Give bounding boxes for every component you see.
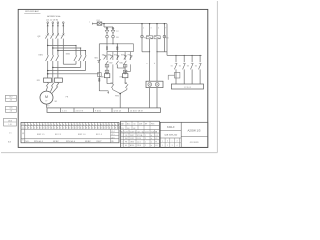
svg-text:3P 10A: 3P 10A: [137, 134, 143, 137]
svg-text:PEN: PEN: [115, 96, 120, 98]
wiring table right sub-grid: [111, 129, 120, 143]
svg-text:mark XB: mark XB: [151, 130, 158, 133]
paper right/bottom edge shading: [1, 1, 217, 153]
svg-text:A2GW 1/3: A2GW 1/3: [188, 129, 201, 133]
wire: ladder verticals mid: [107, 64, 130, 83]
svg-text:KM1: KM1: [100, 76, 104, 78]
supply terminals L1 L2 L3 N: [47, 22, 64, 24]
test box on left rail: [98, 73, 102, 77]
svg-text:4: 4: [51, 128, 52, 130]
svg-text:5: 5: [40, 124, 41, 126]
svg-text:3: 3: [57, 124, 58, 126]
svg-text:12 13 14: 12 13 14: [114, 110, 121, 112]
svg-text:6: 6: [60, 124, 61, 126]
svg-text:JR36: JR36: [130, 142, 134, 144]
svg-text:1: 1: [112, 128, 113, 130]
svg-text:2: 2: [37, 124, 38, 126]
svg-text:0: 0: [83, 124, 84, 126]
svg-text:1: 1: [74, 124, 75, 126]
svg-text:a: a: [162, 141, 163, 143]
svg-text:BVR 1.0: BVR 1.0: [78, 134, 86, 136]
svg-text:XJ21-F: XJ21-F: [167, 126, 175, 129]
wire: leads into motor: [46, 86, 58, 93]
svg-text:3: 3: [72, 128, 73, 130]
contactor coil KM2: [120, 74, 128, 79]
svg-text:2: 2: [34, 128, 35, 130]
title block: [160, 122, 208, 147]
svg-text:6: 6: [31, 124, 32, 126]
wiring table bottom row labels: [26, 141, 115, 143]
svg-text:2: 2: [63, 128, 64, 130]
title block small cells text: [162, 141, 177, 148]
circuit breaker QF: [37, 33, 65, 39]
svg-text:7: 7: [48, 128, 49, 130]
svg-text:0: 0: [25, 124, 26, 126]
svg-text:3: 3: [28, 124, 29, 126]
svg-text:1: 1: [25, 128, 26, 130]
svg-text:L1 4: L1 4: [111, 131, 114, 133]
title block date cell: [190, 142, 199, 144]
svg-text:1 2 3: 1 2 3: [62, 110, 66, 112]
svg-text:CJX2: CJX2: [130, 138, 134, 140]
limit switch branch SQ1: [171, 55, 178, 84]
wire: ladder verticals upper: [107, 44, 134, 60]
svg-text:D318: D318: [8, 120, 12, 122]
contactor KM1 main contacts: [39, 55, 59, 61]
svg-text:1: 1: [122, 135, 123, 137]
connector plugs X1: [106, 44, 118, 52]
svg-text:2: 2: [66, 124, 67, 126]
interlock boxes above coils: [105, 65, 127, 73]
svg-text:4: 4: [80, 128, 81, 130]
right terminal box: [171, 84, 203, 89]
svg-text:3: 3: [172, 145, 173, 147]
connector on left rail: [99, 78, 100, 81]
wiring table dense columns: [28, 122, 121, 129]
left margin zone box 1: [5, 95, 16, 101]
svg-text:7: 7: [51, 124, 52, 126]
svg-text:3: 3: [43, 128, 44, 130]
svg-text:0: 0: [103, 128, 104, 130]
svg-text:3: 3: [122, 142, 123, 144]
ladder row1 contacts: [102, 54, 133, 59]
svg-text:1: 1: [143, 28, 144, 30]
svg-text:2: 2: [95, 124, 96, 126]
svg-text:7: 7: [106, 128, 107, 130]
svg-text:BV 2.5: BV 2.5: [55, 134, 62, 136]
svg-text:5: 5: [98, 124, 99, 126]
svg-text:JBT-2019 A02: JBT-2019 A02: [25, 10, 40, 13]
svg-text:6: 6: [98, 128, 99, 130]
svg-text:4 5 6 7 8: 4 5 6 7 8: [76, 110, 83, 112]
svg-text:6: 6: [89, 124, 90, 126]
svg-text:2: 2: [122, 138, 123, 140]
voltage transformer TV symbols: [105, 28, 119, 34]
auxiliary contacts below coils: [107, 82, 128, 87]
svg-text:4: 4: [109, 128, 110, 130]
wire: PE tap from motor lead: [47, 73, 99, 75]
svg-text:spec. qty: spec. qty: [137, 130, 144, 133]
svg-text:FR: FR: [37, 80, 40, 82]
svg-text:RVV 3x1.0: RVV 3x1.0: [66, 141, 75, 143]
drawing number text top-left: [24, 10, 40, 14]
svg-text:7: 7: [165, 28, 166, 30]
heater connection box: [168, 72, 180, 79]
wire: KM2 crossover to motor leads: [47, 61, 85, 71]
svg-text:S2: S2: [179, 65, 181, 67]
wire: left control rail: [99, 44, 107, 91]
svg-text:5: 5: [69, 124, 70, 126]
overload heater strokes: [46, 82, 59, 86]
wire: drops below fuses: [142, 38, 164, 52]
svg-text:S4: S4: [195, 65, 197, 67]
svg-text:2: 2: [167, 145, 168, 147]
limit switch branch SQ2: [179, 55, 186, 84]
parts list table: [121, 121, 160, 147]
svg-text:L2 5: L2 5: [111, 134, 114, 136]
svg-text:DZ47: DZ47: [130, 135, 134, 137]
terminal strip XT: [47, 106, 161, 113]
svg-text:K1: K1: [155, 138, 157, 140]
svg-text:5: 5: [60, 128, 61, 130]
limit switch branch SQ3: [187, 55, 194, 84]
svg-text:9: 9: [34, 124, 35, 126]
svg-text:8: 8: [86, 128, 87, 130]
svg-text:1: 1: [54, 128, 55, 130]
svg-text:6: 6: [69, 128, 70, 130]
wire: KM1 poles down: [48, 61, 58, 78]
svg-text:1: 1: [45, 124, 46, 126]
wiring table grid: [21, 122, 119, 142]
svg-text:8: 8: [28, 128, 29, 130]
ladder row2 interlock contacts: [106, 61, 127, 65]
stop button SB1 on left rail: [94, 58, 100, 63]
supply label text: [46, 15, 60, 21]
title block project name: [167, 126, 175, 129]
svg-text:4: 4: [106, 124, 107, 126]
svg-text:S3: S3: [187, 65, 189, 67]
wiring table tiny cell digits: [25, 124, 119, 129]
svg-text:1: 1: [103, 124, 104, 126]
svg-text:QJB 3kW-400: QJB 3kW-400: [164, 135, 178, 137]
svg-text:M: M: [45, 95, 48, 99]
svg-text:4: 4: [48, 124, 49, 126]
svg-text:HL: HL: [125, 145, 127, 147]
indicator lamp panel box: [146, 81, 163, 87]
wire: lamp feeders: [146, 52, 157, 81]
svg-text:HJ: HJ: [133, 128, 135, 130]
wire: feed to right group: [167, 24, 174, 56]
wire: neutral line down: [62, 39, 64, 65]
svg-text:N2 BV: N2 BV: [53, 141, 59, 143]
thermal overload relay FR: [37, 78, 63, 82]
svg-text:1:1: 1:1: [9, 133, 12, 135]
svg-text:9: 9: [63, 124, 64, 126]
node label PEN: [115, 96, 120, 98]
svg-text:4 6: 4 6: [10, 100, 12, 102]
svg-text:0: 0: [45, 128, 46, 130]
svg-text:KM1: KM1: [119, 63, 123, 65]
contactor coil KM1: [100, 74, 109, 79]
fuse FU3 on outer drops: [141, 35, 170, 39]
svg-text:a: a: [146, 63, 147, 65]
svg-text:KM2: KM2: [109, 63, 113, 65]
svg-text:6: 6: [118, 124, 119, 126]
svg-text:L: L: [89, 22, 90, 24]
limit switch branch SQ4: [195, 55, 202, 84]
svg-text:8: 8: [72, 124, 73, 126]
svg-text:8: 8: [43, 124, 44, 126]
svg-text:H1: H1: [155, 145, 157, 147]
svg-text:BV 1.5: BV 1.5: [96, 134, 103, 136]
svg-text:SB1: SB1: [94, 58, 98, 60]
svg-text:b: b: [154, 63, 155, 65]
svg-text:S1: S1: [171, 65, 173, 67]
wiring table left header vertical text: [22, 123, 24, 141]
svg-text:BVR 1.5: BVR 1.5: [37, 134, 45, 136]
wire: control feed drops: [104, 24, 113, 30]
fuse FU1 (box with X): [97, 20, 102, 25]
svg-text:4: 4: [122, 145, 123, 147]
svg-text:(L1 L2 L3 N): (L1 L2 L3 N): [46, 19, 58, 21]
svg-text:GY 2019: GY 2019: [190, 142, 199, 144]
wiring table middle row labels: [37, 134, 103, 136]
wire: below coils: [107, 78, 125, 84]
svg-text:6: 6: [40, 128, 41, 130]
svg-text:5: 5: [89, 128, 90, 130]
svg-text:b: b: [167, 141, 168, 143]
svg-text:2 8: 2 8: [10, 111, 12, 113]
lamp HL1: [148, 83, 152, 87]
wire: pair merge links: [142, 51, 167, 52]
wire: converge to node: [113, 88, 127, 95]
svg-text:3: 3: [151, 28, 152, 30]
left margin bottom text: [8, 141, 12, 144]
svg-text:1-1.6: 1-1.6: [137, 142, 141, 144]
svg-text:3: 3: [115, 124, 116, 126]
svg-text:9: 9: [37, 128, 38, 130]
fuse FU2 pair: [106, 34, 120, 40]
svg-text:RVV 4x1.5: RVV 4x1.5: [34, 141, 43, 143]
wire: control bus stub: [89, 22, 97, 25]
contactor KM2 main contacts: [66, 54, 86, 61]
left margin scale text: [9, 133, 12, 135]
svg-text:2: 2: [145, 138, 146, 140]
wire: motor to terminal strip: [46, 104, 48, 108]
motor M1: [40, 91, 57, 104]
svg-text:EF: EF: [145, 124, 147, 126]
wire: left rail bottom link to sheet ref: [99, 91, 109, 94]
svg-text:1: 1: [145, 142, 146, 144]
label PE near motor: [66, 96, 69, 98]
svg-text:1:10: 1:10: [8, 124, 11, 126]
svg-text:M1: M1: [55, 101, 58, 103]
svg-text:8: 8: [57, 128, 58, 130]
svg-text:1: 1: [145, 135, 146, 137]
svg-text:0: 0: [74, 128, 75, 130]
wire: to ladder top: [107, 38, 134, 52]
svg-text:1 2 3 4 5: 1 2 3 4 5: [184, 87, 191, 89]
title block sheet number: [188, 129, 201, 133]
wire: right group top bus: [174, 55, 201, 56]
svg-text:0: 0: [54, 124, 55, 126]
svg-text:RVV7: RVV7: [97, 141, 102, 143]
wire: phase drops from terminals: [47, 23, 64, 33]
svg-text:B12: B12: [9, 97, 12, 99]
svg-text:9 10 11: 9 10 11: [95, 110, 101, 112]
fuse FU4 boxes on middle drops: [146, 36, 160, 39]
parts list rows text: [121, 123, 157, 147]
svg-text:d: d: [176, 141, 177, 143]
svg-text:N3 BV: N3 BV: [85, 141, 91, 143]
svg-text:3: 3: [86, 124, 87, 126]
wire: node to terminal strip: [119, 94, 121, 108]
left margin revision box: [4, 118, 17, 126]
svg-text:unit re: unit re: [145, 130, 150, 133]
svg-text:AC380V 50Hz: AC380V 50Hz: [47, 15, 60, 18]
svg-text:9: 9: [92, 124, 93, 126]
wire: phases below breaker: [48, 39, 58, 56]
svg-text:8: 8: [115, 128, 116, 130]
svg-text:5: 5: [158, 28, 159, 30]
title block drawing title: [164, 135, 178, 137]
svg-text:15 16 17 18 19: 15 16 17 18 19: [130, 110, 143, 112]
svg-text:4: 4: [176, 145, 177, 147]
wire: control bus horizontal: [102, 23, 167, 24]
svg-text:7: 7: [80, 124, 81, 126]
svg-text:1: 1: [162, 145, 163, 147]
svg-text:9: 9: [66, 128, 67, 130]
svg-text:AD16: AD16: [130, 144, 134, 147]
svg-text:2: 2: [145, 145, 146, 147]
svg-text:9: 9: [95, 128, 96, 130]
svg-text:2: 2: [92, 128, 93, 130]
lamp HL2: [155, 83, 159, 87]
svg-text:No: No: [121, 131, 123, 133]
wire: three-phase taps to KM2 branch: [47, 45, 86, 56]
drawing sheet border frame: [18, 9, 208, 147]
svg-text:G3: G3: [127, 128, 129, 130]
svg-text:N1 L: N1 L: [26, 141, 30, 143]
parts list header text band: [121, 130, 158, 133]
wire: lamps to terminal strip: [150, 88, 157, 108]
svg-text:0: 0: [112, 124, 113, 126]
svg-text:4: 4: [77, 124, 78, 126]
svg-text:1: 1: [83, 128, 84, 130]
svg-text:QF: QF: [125, 135, 127, 137]
svg-text:3: 3: [101, 128, 102, 130]
svg-text:C05: C05: [9, 108, 12, 110]
svg-text:5: 5: [118, 128, 119, 130]
left margin zone box 2: [5, 106, 16, 112]
svg-text:FU1: FU1: [97, 20, 100, 22]
svg-text:Q1: Q1: [155, 135, 157, 137]
wire: right drops from bus: [142, 24, 166, 36]
svg-text:8: 8: [101, 124, 102, 126]
svg-text:09 10: 09 10: [137, 138, 141, 140]
svg-text:name: name: [124, 131, 128, 133]
svg-text:L3 6: L3 6: [111, 137, 114, 139]
svg-text:7: 7: [77, 128, 78, 130]
svg-text:5: 5: [31, 128, 32, 130]
svg-text:F1: F1: [155, 142, 157, 144]
svg-text:7: 7: [109, 124, 110, 126]
